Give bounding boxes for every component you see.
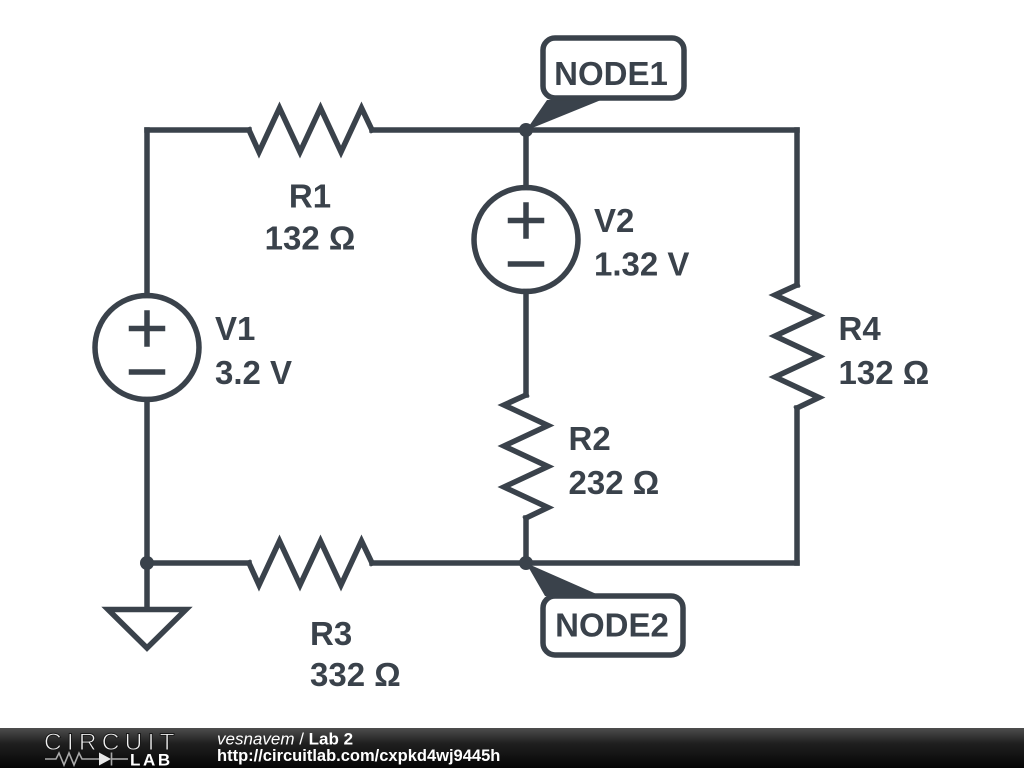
node label NODE1 box <box>543 38 684 98</box>
wire R1 to NODE1 to top-right corner <box>372 127 797 133</box>
svg-text:132 Ω: 132 Ω <box>265 220 356 257</box>
svg-text:V1: V1 <box>215 310 255 347</box>
svg-text:132 Ω: 132 Ω <box>839 354 930 391</box>
wire R3 to NODE2 to bottom-right corner <box>372 560 797 566</box>
CircuitLab logo schematic line with resistor and diode <box>45 753 128 766</box>
wire R4 to bottom-right corner <box>794 408 800 563</box>
svg-text:R2: R2 <box>569 420 611 457</box>
svg-text:NODE2: NODE2 <box>555 607 669 644</box>
voltage source V1 <box>95 296 199 400</box>
V1 minus sign <box>132 369 163 375</box>
svg-text:LAB: LAB <box>130 751 173 768</box>
svg-text:1.32 V: 1.32 V <box>594 246 689 283</box>
ground symbol triangle <box>108 610 186 649</box>
node label NODE2 box <box>543 596 683 655</box>
V1 plus sign <box>132 313 163 344</box>
node label NODE1 callout pointer <box>526 100 601 131</box>
wire top-left: left corner to R1 <box>147 127 249 133</box>
voltage source V2 <box>474 188 578 292</box>
svg-text:R3: R3 <box>310 615 352 652</box>
resistor R1 <box>249 108 372 152</box>
wire bottom: ground node to R3 <box>147 560 249 566</box>
svg-text:R4: R4 <box>839 310 882 347</box>
wire V2 bottom to R2 <box>523 292 529 396</box>
node junction dot NODE2 <box>519 556 533 570</box>
wire right side: top corner down to R4 <box>794 130 800 285</box>
node label NODE2 callout pointer <box>526 563 601 596</box>
CircuitLab logo diode triangle <box>99 753 111 766</box>
wire NODE1 down to V2 top <box>523 130 529 188</box>
svg-text:R1: R1 <box>289 178 331 215</box>
node junction dot NODE1 <box>519 123 533 137</box>
wire V1 bottom to ground node <box>144 400 150 564</box>
wire left side: corner down to V1 top <box>144 130 150 296</box>
ground stem wire <box>144 563 150 608</box>
svg-text:3.2 V: 3.2 V <box>215 354 292 391</box>
svg-text:332 Ω: 332 Ω <box>310 656 401 693</box>
node junction dot ground <box>140 556 154 570</box>
V2 plus sign <box>511 205 542 236</box>
svg-text:V2: V2 <box>594 202 634 239</box>
resistor R4 <box>775 285 819 408</box>
svg-text:vesnavem / Lab 2: vesnavem / Lab 2 <box>217 730 353 749</box>
svg-text:232 Ω: 232 Ω <box>569 464 660 501</box>
resistor R3 <box>249 541 372 585</box>
svg-text:http://circuitlab.com/cxpkd4wj: http://circuitlab.com/cxpkd4wj9445h <box>217 747 500 765</box>
V2 minus sign <box>511 261 542 267</box>
wire R2 to NODE2 <box>523 518 529 563</box>
svg-text:NODE1: NODE1 <box>554 55 668 92</box>
resistor R2 <box>504 395 548 518</box>
